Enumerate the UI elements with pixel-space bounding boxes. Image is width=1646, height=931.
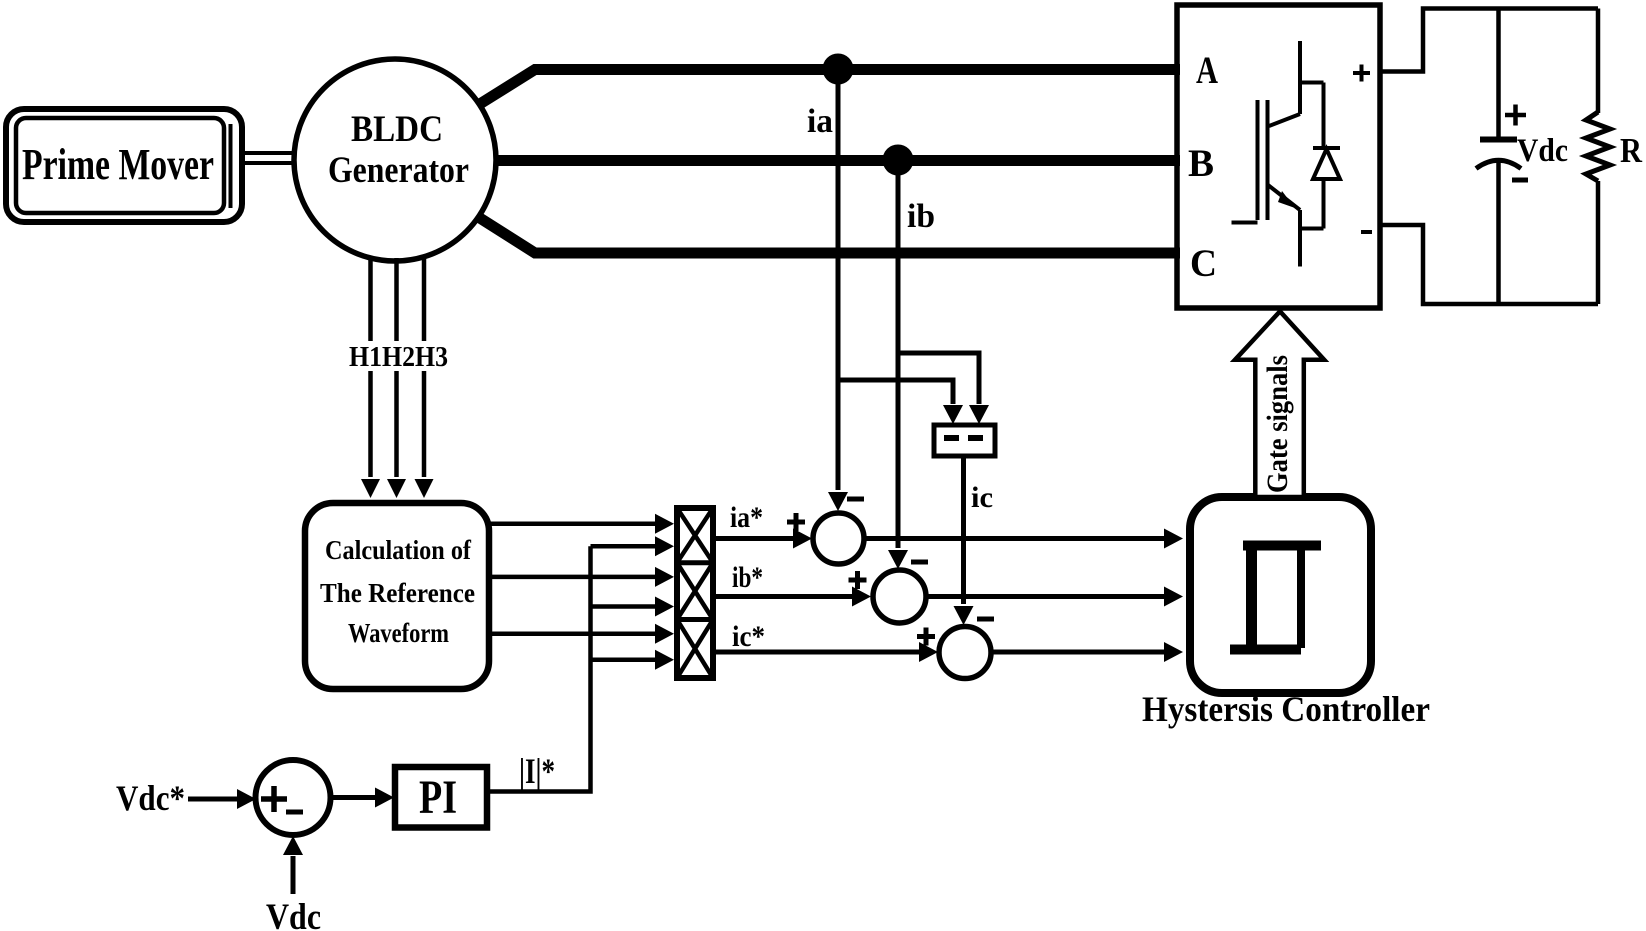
wire hall sensor H1 <box>368 258 373 477</box>
svg-text:A: A <box>1196 49 1218 92</box>
wire waveform b to multiplier X2 <box>490 575 655 580</box>
wire waveform c to multiplier X3 <box>490 631 655 636</box>
multiplier divider X2/X3 <box>677 617 713 622</box>
svg-text:ic*: ic* <box>732 620 765 653</box>
minus sign at summer S3 <box>977 617 994 622</box>
arrowhead H2 into calculation block <box>387 479 406 498</box>
wire summer S4 to PI <box>331 795 376 800</box>
svg-text:Hystersis Controller: Hystersis Controller <box>1142 689 1430 729</box>
wire resistor branch bottom <box>1596 181 1601 304</box>
hysteresis symbol right vertical <box>1297 541 1305 648</box>
label H1H2H3 <box>345 341 452 371</box>
arrowhead H1 into calculation block <box>361 479 380 498</box>
minus sign at summer S4 <box>286 810 303 815</box>
shaft double line lower <box>241 161 296 165</box>
minus sign battery <box>1512 178 1528 183</box>
arrowhead waveform b into multiplier X2 <box>655 567 674 587</box>
svg-text:B: B <box>1188 142 1214 185</box>
svg-text:R: R <box>1620 131 1643 170</box>
summer S4 voltage loop <box>256 760 331 835</box>
arrowhead waveform c into multiplier X3 <box>655 624 674 644</box>
arrowhead into PI <box>375 788 394 808</box>
IGBT Q1 with antiparallel diode D1 <box>1232 41 1341 267</box>
prime mover shaft coupling line <box>229 124 233 208</box>
minus sign dc bus <box>1361 230 1372 234</box>
arrowhead waveform a into multiplier X1 <box>655 514 674 534</box>
IGBT Q1 emitter arrowhead <box>1278 191 1295 208</box>
svg-text:Vdc: Vdc <box>1517 133 1568 169</box>
arrowhead row 1 into hysteresis controller <box>1164 529 1183 549</box>
resistor R zigzag <box>1586 112 1610 181</box>
wire |I|* branch to multiplier X3 <box>591 657 656 662</box>
prime mover M1 outer case <box>6 109 242 222</box>
summer S2 <box>873 570 926 623</box>
svg-text:Generator: Generator <box>328 150 469 191</box>
wire ib* multiplier X2 to summer S2 <box>713 594 853 599</box>
svg-text:BLDC: BLDC <box>351 109 443 150</box>
arrowhead ic* into summer S3 <box>919 642 938 662</box>
arrowhead ia* into summer S1 <box>793 529 812 549</box>
wire |I|* branch to multiplier X1 <box>591 544 656 549</box>
wire hall sensor H3 <box>422 258 427 477</box>
wire |I|* branch to multiplier X2 <box>591 604 656 609</box>
arrowhead |I|* into multiplier X2 <box>655 597 674 617</box>
arrowhead ic into summer S3 <box>954 606 974 625</box>
svg-text:Prime Mover: Prime Mover <box>22 140 214 189</box>
BLDC generator G1 body <box>294 59 496 261</box>
arrowhead ia into negate box <box>943 405 963 424</box>
battery BT1 positive plate <box>1480 137 1517 143</box>
wire summer S2 to hysteresis controller <box>926 594 1165 599</box>
wire waveform a to multiplier X1 <box>490 521 655 526</box>
arrowhead ib into summer S2 <box>888 550 908 569</box>
arrowhead Vdc* into summer S4 <box>237 789 256 809</box>
svg-text:ib: ib <box>907 198 935 235</box>
wire Vdc* to summer S4 <box>188 797 237 802</box>
converter U1 box <box>1177 5 1380 308</box>
wire PI output |I|* riser <box>487 546 591 791</box>
multiplier divider X1/X2 <box>677 560 713 565</box>
svg-text:PI: PI <box>419 771 457 824</box>
wire phase B <box>494 155 1180 166</box>
wire summer S1 to hysteresis controller <box>864 536 1165 541</box>
wire summer S3 to hysteresis controller <box>991 650 1165 655</box>
wire ia branch to negate box <box>838 380 953 404</box>
wire ia sense line down to summer S1 <box>836 69 841 490</box>
hysteresis controller U2 box <box>1190 497 1371 693</box>
arrowhead row 2 into hysteresis controller <box>1164 587 1183 607</box>
wire Vdc feedback up into summer S4 <box>291 856 296 894</box>
svg-text:Calculation of: Calculation of <box>325 535 472 565</box>
calculation of the reference waveform block U4 <box>305 503 489 689</box>
shaft double line upper <box>241 151 296 155</box>
wire battery branch top <box>1496 9 1501 139</box>
plus sign battery <box>1505 105 1526 126</box>
summer S3 <box>939 627 991 679</box>
wire battery branch bottom <box>1496 162 1501 304</box>
wire ic down to summer S3 <box>961 456 966 604</box>
prime mover M1 inner case <box>16 118 224 213</box>
hysteresis symbol left vertical <box>1246 541 1257 654</box>
svg-text:Gate signals: Gate signals <box>1261 355 1294 493</box>
wire ia* multiplier X1 to summer S1 <box>713 536 794 541</box>
plus sign at summer S1 <box>787 513 805 531</box>
wire dc bus - to load loop <box>1380 225 1598 304</box>
PI controller U5 box <box>395 767 487 828</box>
arrowhead ib into negate box <box>969 405 989 424</box>
svg-text:Waveform: Waveform <box>348 618 449 648</box>
wire hall sensor H2 <box>394 258 399 477</box>
wire resistor branch top <box>1596 9 1601 114</box>
minus sign at summer S1 <box>847 497 864 502</box>
wire ib sense line down to summer S2 <box>896 160 901 548</box>
svg-text:ia*: ia* <box>730 501 763 534</box>
gate signals block arrow to converter <box>1235 311 1324 497</box>
wire phase C <box>479 218 1180 254</box>
svg-text:C: C <box>1190 242 1217 285</box>
svg-text:ib*: ib* <box>732 561 763 594</box>
arrowhead |I|* into multiplier X3 <box>655 650 674 670</box>
summer S1 <box>813 513 864 564</box>
negate box U3 (ic = -ia-ib) <box>934 425 995 456</box>
arrowhead row 3 into hysteresis controller <box>1164 642 1183 662</box>
svg-text:ia: ia <box>807 103 833 140</box>
hysteresis symbol top bar <box>1243 541 1321 551</box>
svg-text:The Reference: The Reference <box>320 578 475 608</box>
svg-text:H1H2H3: H1H2H3 <box>349 342 448 373</box>
svg-text:ic: ic <box>971 481 993 514</box>
plus sign dc bus <box>1353 65 1370 82</box>
negate box minus sign 2 <box>968 435 983 441</box>
plus sign at summer S2 <box>849 571 867 589</box>
wire ic* multiplier X3 to summer S3 <box>713 650 920 655</box>
multiplier column X1 X2 X3 frame <box>677 508 713 678</box>
negate box minus sign 1 <box>944 435 959 441</box>
arrowhead H3 into calculation block <box>415 479 434 498</box>
svg-text:Vdc: Vdc <box>266 897 321 931</box>
wire ib branch to negate box <box>898 353 979 404</box>
plus sign at summer S3 <box>917 628 935 646</box>
wire phase A <box>479 70 1180 105</box>
svg-text:|I|*: |I|* <box>519 751 555 791</box>
arrowhead ia into summer S1 <box>828 492 848 511</box>
battery BT1 curved negative plate <box>1476 160 1521 168</box>
node ib junction dot on phase B <box>883 145 914 176</box>
svg-text:Vdc*: Vdc* <box>116 778 185 818</box>
arrowhead ib* into summer S2 <box>852 587 871 607</box>
multiplier X crosses <box>677 508 713 678</box>
arrowhead Vdc feedback into summer S4 <box>283 836 303 855</box>
arrowhead |I|* into multiplier X1 <box>655 536 674 556</box>
hysteresis symbol bottom bar <box>1230 645 1301 655</box>
plus sign at summer S4 <box>261 786 287 812</box>
minus sign at summer S2 <box>911 560 928 565</box>
wire dc bus + to load loop <box>1380 9 1598 72</box>
node ia junction dot on phase A <box>823 54 854 85</box>
